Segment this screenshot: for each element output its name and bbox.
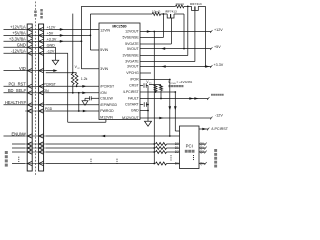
svg-text:PGD: PGD [45,107,53,111]
svg-text:-12V: -12V [47,50,55,54]
wire -12V row [46,52,68,54]
wire 3VOUT row to +3.3V output [140,66,211,68]
node 3.3V sense tap [184,5,192,7]
wire /LPCIRST drop to PCI controller [174,92,176,131]
svg-text:FAULT: FAULT [128,97,139,101]
wire 3.3V FET source out [198,5,205,7]
svg-text:+12V: +12V [214,28,223,32]
svg-text:ENUM#: ENUM# [11,131,26,136]
ellipsis in controller [193,155,194,156]
ellipsis left bus [18,157,19,158]
svg-text:-12V: -12V [215,113,223,117]
ground symbol (IC) [145,121,152,126]
node +5V junction [90,35,92,37]
svg-text:/LPCIRST: /LPCIRST [211,127,228,131]
svg-text:CSLEW: CSLEW [100,97,113,101]
svg-text:HEALTHY#: HEALTHY# [5,100,27,105]
wire +5V riser to rail and down to 5VIN [89,14,91,50]
svg-text:GND: GND [17,43,26,48]
net label -12V/1A [4,52,26,54]
net label HEALTHY# [4,104,26,106]
wire PCI controller reset out [199,128,208,130]
rotated label: backplane side [34,11,37,14]
wire +5V top rail [90,13,152,15]
svg-text:PWRGD: PWRGD [100,109,114,113]
wire VID stub [46,70,54,72]
svg-text:VID: VID [19,66,26,71]
node 5V sense tap [161,13,168,15]
PCI controller U2 [180,126,200,169]
connector J1 left half (backplane side) [27,24,32,171]
wire VPCHG stub [140,72,151,74]
resistor 10m ohm sense (3.3V) [176,5,185,8]
svg-text:3VGATE: 3VGATE [125,60,139,64]
svg-text:/POR: /POR [130,78,139,82]
wire /PCIRST row [46,85,99,87]
resistor bus pull-up Dn [156,162,167,165]
wire 3VSENSE riser [187,6,189,55]
net label ENUM# [4,135,26,137]
svg-text:/LPCIRST: /LPCIRST [123,90,140,94]
rotated label: card side [40,9,43,12]
wire pull-up rail (vertical) [153,32,155,164]
resistor pull-up /LPCIRST [154,85,157,91]
capacitor C3 on CSLEW [90,96,92,100]
wire M12VOUT row to -12V output [140,117,211,119]
wire 3.3V output drop [205,6,207,66]
wire +3.3V top rail [81,5,175,7]
svg-text:PCI: PCI [186,143,193,148]
ground symbol (connector GND) [52,60,59,64]
wire /LPCIRST row [140,91,175,93]
resistor 1.2k (on /PCIRST) [75,74,78,85]
wire 5VGATE riser (gate) [170,18,172,44]
resistor bus pull-up D2 [156,151,167,154]
connector J1 right half (card side) [39,24,44,171]
wire PGD row to PWRGD [46,110,99,112]
svg-text:1.2k: 1.2k [81,77,88,81]
vertical label: data bus (chinese) [5,151,8,154]
svg-text:10mΩ: 10mΩ [175,2,184,6]
wire GND drop [55,47,57,60]
net label +3.3V/8A [4,40,26,42]
bus stub wires (left) [12,143,25,145]
svg-text:/PCIRST: /PCIRST [43,82,56,86]
ground symbol (CSLEW cap) [82,101,88,105]
wire CSLEW [91,97,99,99]
IC U1 MIC2580 hot swap controller [99,23,140,120]
wire data bus D2 [46,151,155,153]
svg-text:+5V: +5V [47,32,54,36]
wire /ON to PGD tie [78,93,80,111]
svg-text:10mΩ: 10mΩ [152,9,161,13]
wire Vcc feed vertical [72,14,74,73]
label (status display) chinese vertical [214,149,217,152]
svg-text:D2: D2 [175,150,179,154]
svg-text:GND: GND [47,44,56,48]
wire /POR row [140,79,170,81]
svg-text:+5V/8A: +5V/8A [12,31,26,36]
capacitor C1 on CRST [140,85,143,87]
wire 5V FET source out [174,13,184,15]
svg-text:+5V: +5V [214,45,221,49]
svg-text:+3.3V: +3.3V [47,38,57,42]
svg-text:MIC2580: MIC2580 [112,25,126,29]
svg-text:5VGATE: 5VGATE [125,42,139,46]
svg-text:M12VIN: M12VIN [100,116,113,120]
wire data bus Dn [46,163,155,165]
resistor 1.2k (on /ON) [71,74,74,85]
label (remote notification) chinese [211,94,213,96]
svg-text:5VOUT: 5VOUT [127,47,140,51]
svg-text:-12V/1A: -12V/1A [11,49,26,54]
svg-text:CRST: CRST [129,84,139,88]
node +12V rail tap [153,31,155,33]
wire cap common drop [147,86,149,122]
wire FAULT row to remote notify [140,98,208,100]
wire 5VSENSE riser [162,14,164,38]
svg-text:IRF7413: IRF7413 [190,2,202,6]
svg-text:VPCHG: VPCHG [126,71,139,75]
svg-text:PCHG: PCHG [171,83,177,85]
capacitor C2 on CSTART [140,104,143,106]
svg-text:/PCIRST: /PCIRST [100,84,115,88]
svg-text:GND: GND [131,109,139,113]
note (precharge supply) chinese [169,85,171,87]
svg-text:+3.3V: +3.3V [214,63,224,67]
svg-text:/ON: /ON [100,91,107,95]
wire 5VOUT row to +5V output [140,48,211,50]
label (controller) chinese [185,150,188,153]
svg-text:= +1V±20%: = +1V±20% [177,80,193,84]
net label +12V/1A [4,28,26,30]
svg-text:5VIN: 5VIN [100,48,108,52]
svg-text:+3.3V/8A: +3.3V/8A [9,37,26,42]
wire data bus D0 [46,143,155,145]
net label GND [4,46,26,48]
wire ENUM row to PCI controller [46,135,180,137]
svg-text:/EPWRGD: /EPWRGD [100,103,117,107]
wire 5V output drop [183,14,185,49]
svg-text:3VSENSE: 3VSENSE [123,54,140,58]
svg-text:IRF7413: IRF7413 [165,9,177,13]
pull-up tie bar 2 [149,84,161,86]
connector pin chevrons and through-wires [25,28,46,30]
ellipsis at resistors [170,155,171,156]
svg-text:PCI_RST: PCI_RST [9,82,27,87]
svg-text:Dn: Dn [175,162,179,166]
svg-text:3VIN: 3VIN [100,67,108,71]
transistor Q2 IRF7413 (3.3V switch) [192,6,199,10]
svg-text:/ON: /ON [43,89,50,93]
svg-text:5VSENSE: 5VSENSE [123,36,140,40]
wire 12VOUT row to +12V output [140,31,211,33]
net label VID [4,70,26,72]
wire -12V drop routed below IC to M12VIN [67,53,69,122]
ellipsis right bus 2 [116,159,117,160]
net label BD_SEL# [4,92,26,94]
wire +3.3V riser to rail and down to 3VIN [80,6,82,68]
wire HEALTHY row to /EPWRGD [46,104,99,106]
ellipsis right bus [90,159,91,160]
net label +5V/8A [4,34,26,36]
card/backplane boundary dashed line [35,2,37,176]
wire +5V row [46,34,91,36]
resistor bus pull-up D0 [156,143,167,146]
svg-text:BD_SEL#: BD_SEL# [8,88,27,93]
wire GND pin [140,110,148,112]
node +3.3V junction [81,40,83,42]
pull-up tie bar [73,72,77,74]
wire /POR drop to PCI controller [169,80,171,137]
wire 3VGATE riser (gate) [194,10,196,61]
resistor 10m ohm sense (5V) [152,13,160,16]
wire data bus D1 [46,147,155,149]
wire /ON row [46,92,99,94]
transistor Q1 IRF7413 (5V switch) [167,14,174,18]
svg-text:3VOUT: 3VOUT [127,65,140,69]
wire +3.3V row [46,40,82,42]
wire Vcc feed from connector [46,72,73,74]
svg-text:+12V/1A: +12V/1A [10,25,26,30]
resistor bus pull-up D1 [156,147,167,150]
svg-text:M12VOUT: M12VOUT [122,116,139,120]
net label PCI_RST [4,85,26,87]
svg-text:+12V: +12V [47,26,56,30]
svg-text:12VOUT: 12VOUT [125,30,139,34]
svg-text:12VIN: 12VIN [100,29,110,33]
wire GND row [46,46,56,48]
arrow on PGD row [83,110,87,113]
wire +12V row to 12VIN [46,28,99,30]
svg-text:CSTART: CSTART [125,103,140,107]
resistor pull-up FAULT [160,85,163,91]
